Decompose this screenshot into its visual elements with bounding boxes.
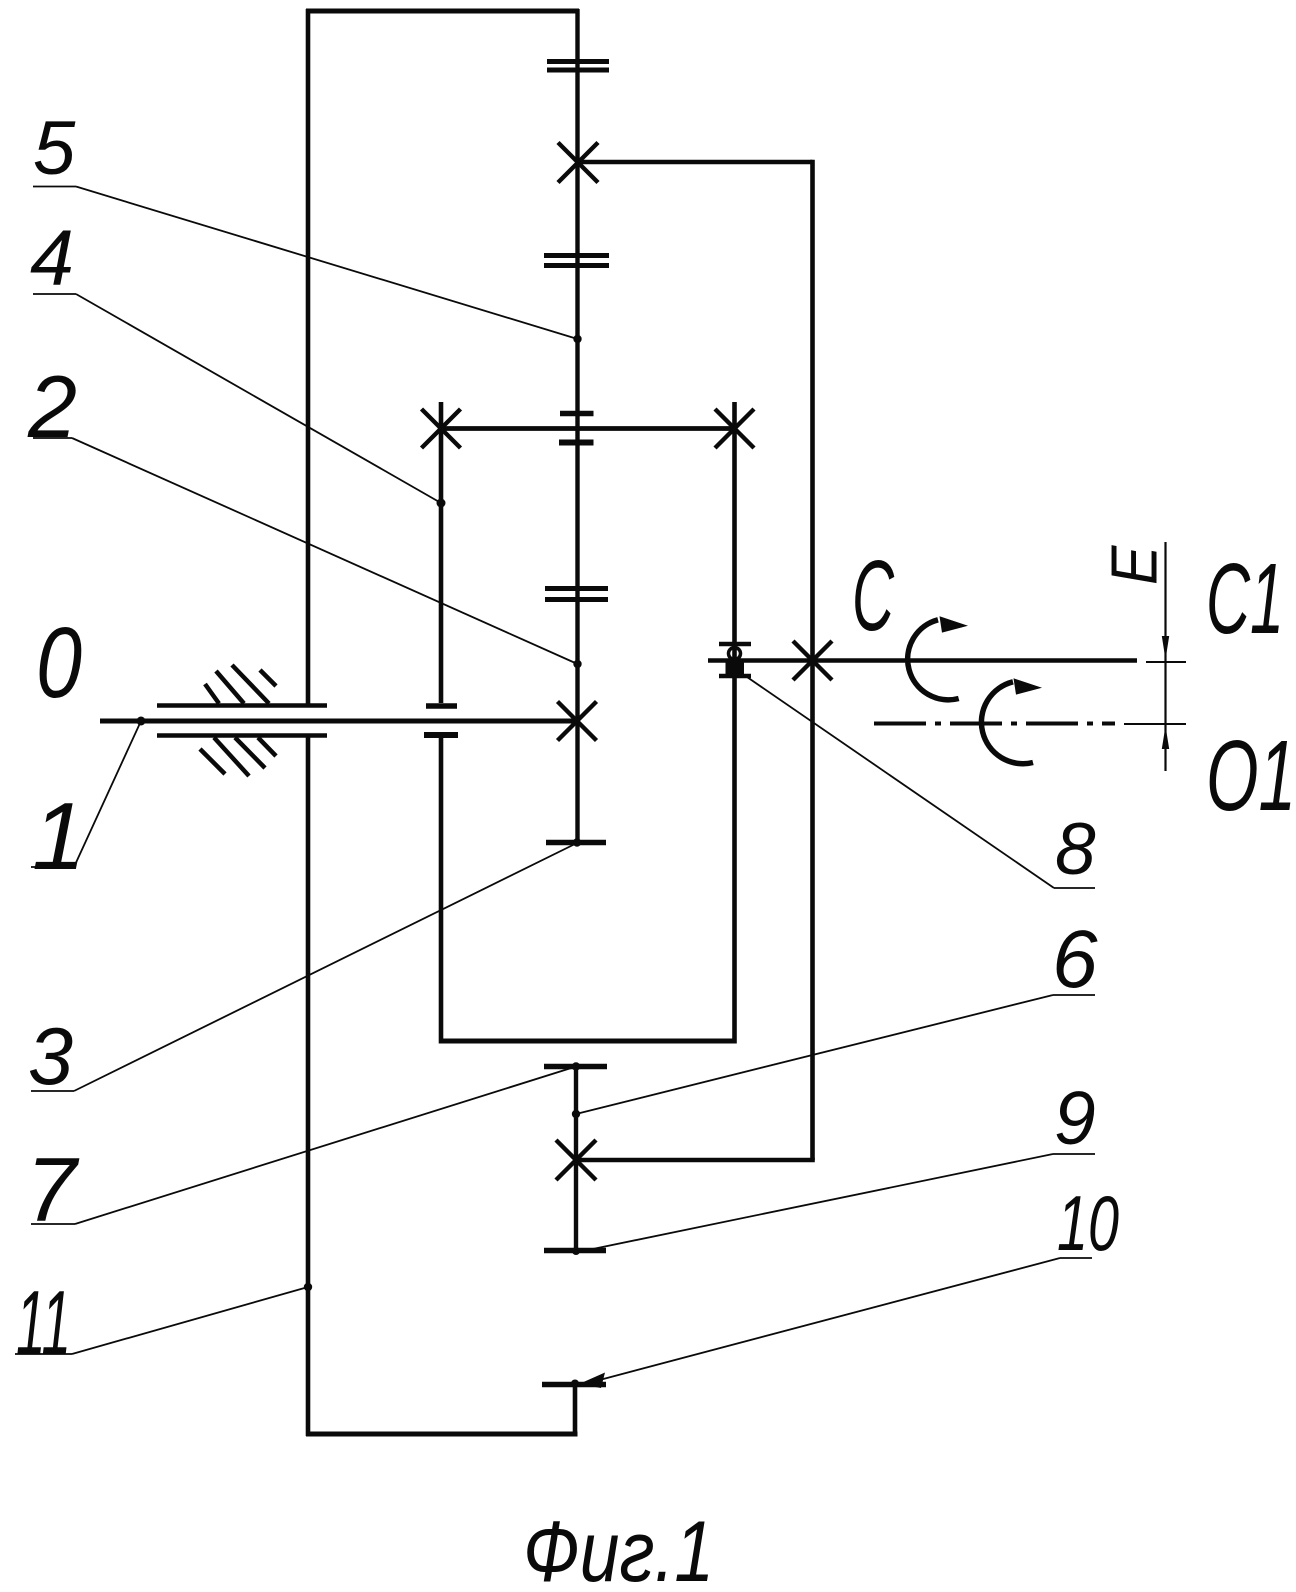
support upper plate bbox=[157, 703, 327, 707]
coupling K3 lower bar bbox=[545, 597, 608, 602]
bearing X5 on shaft C bbox=[793, 641, 832, 680]
support lower plate bbox=[157, 733, 327, 737]
svg-text:11: 11 bbox=[16, 1273, 71, 1374]
node 3 dot bbox=[573, 838, 581, 846]
axis O1 dash-dot bbox=[874, 722, 1115, 726]
svg-text:4: 4 bbox=[30, 213, 74, 302]
svg-text:6: 6 bbox=[1052, 914, 1098, 1005]
bearing X1 on main shaft bbox=[558, 143, 598, 183]
gear G1 lower bar bbox=[424, 732, 458, 738]
main central shaft bbox=[575, 9, 579, 845]
gear G10 bar bbox=[542, 1382, 606, 1388]
housing bottom rail bbox=[306, 1432, 578, 1437]
svg-text:C: C bbox=[852, 540, 894, 652]
gear G5 lower bar bbox=[559, 440, 594, 446]
node 9 dot bbox=[572, 1247, 580, 1255]
dimension E arrow down bbox=[1162, 636, 1169, 660]
node 4 dot bbox=[437, 499, 446, 508]
gear G1 upper bar bbox=[426, 703, 457, 709]
carrier left shaft upper bbox=[439, 402, 444, 703]
svg-text:5: 5 bbox=[33, 106, 76, 191]
bearing 8 bottom bar bbox=[719, 674, 751, 679]
svg-text:1: 1 bbox=[32, 783, 85, 890]
svg-text:Фиг.1: Фиг.1 bbox=[523, 1504, 714, 1592]
svg-text:9: 9 bbox=[1054, 1076, 1096, 1160]
svg-text:8: 8 bbox=[1055, 809, 1096, 890]
dimension E tick at O1 bbox=[1124, 723, 1186, 725]
node 11 dot bbox=[304, 1283, 312, 1291]
rotation arrow on O1 bbox=[981, 682, 1033, 764]
leader 10 bbox=[592, 1258, 1092, 1382]
leader 6 bbox=[576, 995, 1095, 1114]
svg-text:E: E bbox=[1099, 544, 1171, 585]
leader 11 bbox=[15, 1287, 308, 1354]
coupling K1 upper bar bbox=[547, 59, 609, 64]
bearing 8 roller circle bbox=[729, 648, 741, 660]
svg-text:3: 3 bbox=[28, 1012, 73, 1102]
dimension E arrow up bbox=[1162, 726, 1169, 749]
node 10 dot bbox=[571, 1380, 579, 1388]
lower shaft bbox=[574, 1066, 578, 1253]
housing bottom stub shaft bbox=[573, 1384, 578, 1436]
gear G3 bar bbox=[546, 840, 606, 846]
node 6 dot bbox=[572, 1110, 580, 1118]
node 7 dot bbox=[572, 1062, 580, 1070]
node 2 dot bbox=[573, 660, 581, 668]
carrier left shaft lower bbox=[439, 738, 444, 1044]
bearing X6 lower shaft bbox=[556, 1140, 596, 1180]
rotation arrow head on O1 bbox=[1014, 678, 1043, 694]
support hatch upper bbox=[205, 665, 276, 704]
carrier right shaft bbox=[732, 402, 737, 1044]
support hatch lower bbox=[200, 738, 276, 777]
housing left shaft upper segment bbox=[306, 9, 311, 705]
leader 2 bbox=[33, 438, 578, 664]
gear G6 bar bbox=[544, 1064, 607, 1070]
svg-text:O1: O1 bbox=[1206, 720, 1296, 832]
rotation arrow on C bbox=[908, 620, 959, 700]
gear G5 upper bar bbox=[560, 411, 594, 417]
svg-text:10: 10 bbox=[1057, 1179, 1119, 1267]
coupling K1 lower bar bbox=[547, 68, 609, 73]
carrier top rail bbox=[441, 426, 735, 431]
bearing 8 top bar bbox=[719, 642, 751, 647]
node 5 dot bbox=[573, 335, 581, 343]
coupling K2 lower bar bbox=[544, 263, 609, 268]
bearing X2 carrier left bbox=[422, 409, 461, 448]
input shaft O bbox=[100, 719, 578, 724]
wire bottom right link bbox=[576, 1158, 815, 1163]
coupling K2 upper bar bbox=[544, 253, 609, 258]
svg-text:0: 0 bbox=[36, 607, 82, 719]
bearing 8 block bbox=[726, 660, 745, 675]
dimension E tick at C1 bbox=[1146, 661, 1186, 663]
svg-text:7: 7 bbox=[26, 1140, 80, 1241]
leader 3 bbox=[31, 843, 577, 1091]
wire top right link bbox=[578, 160, 813, 165]
rotation arrow head on C bbox=[940, 616, 969, 632]
svg-text:C1: C1 bbox=[1206, 543, 1284, 655]
node 1 dot bbox=[137, 717, 146, 726]
leader 10 arrow head bbox=[579, 1373, 605, 1389]
leader 7 bbox=[31, 1067, 576, 1225]
gear G9 bar bbox=[544, 1248, 606, 1254]
bearing X4 input shaft bbox=[558, 702, 597, 741]
outer right shaft bbox=[810, 160, 815, 1160]
leader 4 bbox=[33, 294, 441, 503]
svg-text:2: 2 bbox=[27, 357, 77, 456]
dimension E line bbox=[1164, 542, 1166, 771]
housing left shaft lower segment bbox=[306, 737, 311, 1436]
shaft C line bbox=[708, 658, 1137, 663]
bearing X3 carrier right bbox=[715, 409, 754, 448]
carrier bottom rail bbox=[441, 1039, 735, 1044]
housing top rail bbox=[306, 9, 579, 14]
coupling K3 upper bar bbox=[545, 586, 608, 591]
leader 8 bbox=[747, 677, 1095, 888]
leader 9 bbox=[588, 1154, 1095, 1250]
leader 1 bbox=[31, 721, 141, 867]
leader 5 bbox=[33, 187, 578, 340]
